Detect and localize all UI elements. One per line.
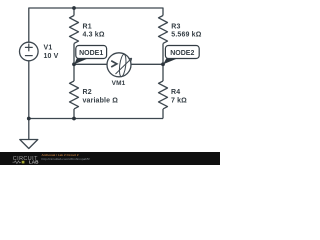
svg-text:V1: V1 xyxy=(44,44,53,51)
svg-text:4.3 kΩ: 4.3 kΩ xyxy=(83,31,105,38)
svg-text:R2: R2 xyxy=(83,89,92,96)
svg-text:10 V: 10 V xyxy=(44,53,59,60)
svg-text:NODE2: NODE2 xyxy=(170,50,194,57)
svg-text:http://circuitlab.com/c6bn3nmp: http://circuitlab.com/c6bn3nmpab5f xyxy=(42,157,90,161)
svg-text:LAB: LAB xyxy=(29,160,39,165)
svg-text:R3: R3 xyxy=(171,23,180,30)
svg-text:R1: R1 xyxy=(83,23,92,30)
svg-text:variable Ω: variable Ω xyxy=(83,97,119,104)
svg-text:7 kΩ: 7 kΩ xyxy=(171,97,187,104)
svg-text:R4: R4 xyxy=(171,89,180,96)
svg-text:5.569 kΩ: 5.569 kΩ xyxy=(171,31,201,38)
svg-text:NODE1: NODE1 xyxy=(79,50,103,57)
svg-text:VM1: VM1 xyxy=(112,80,126,87)
